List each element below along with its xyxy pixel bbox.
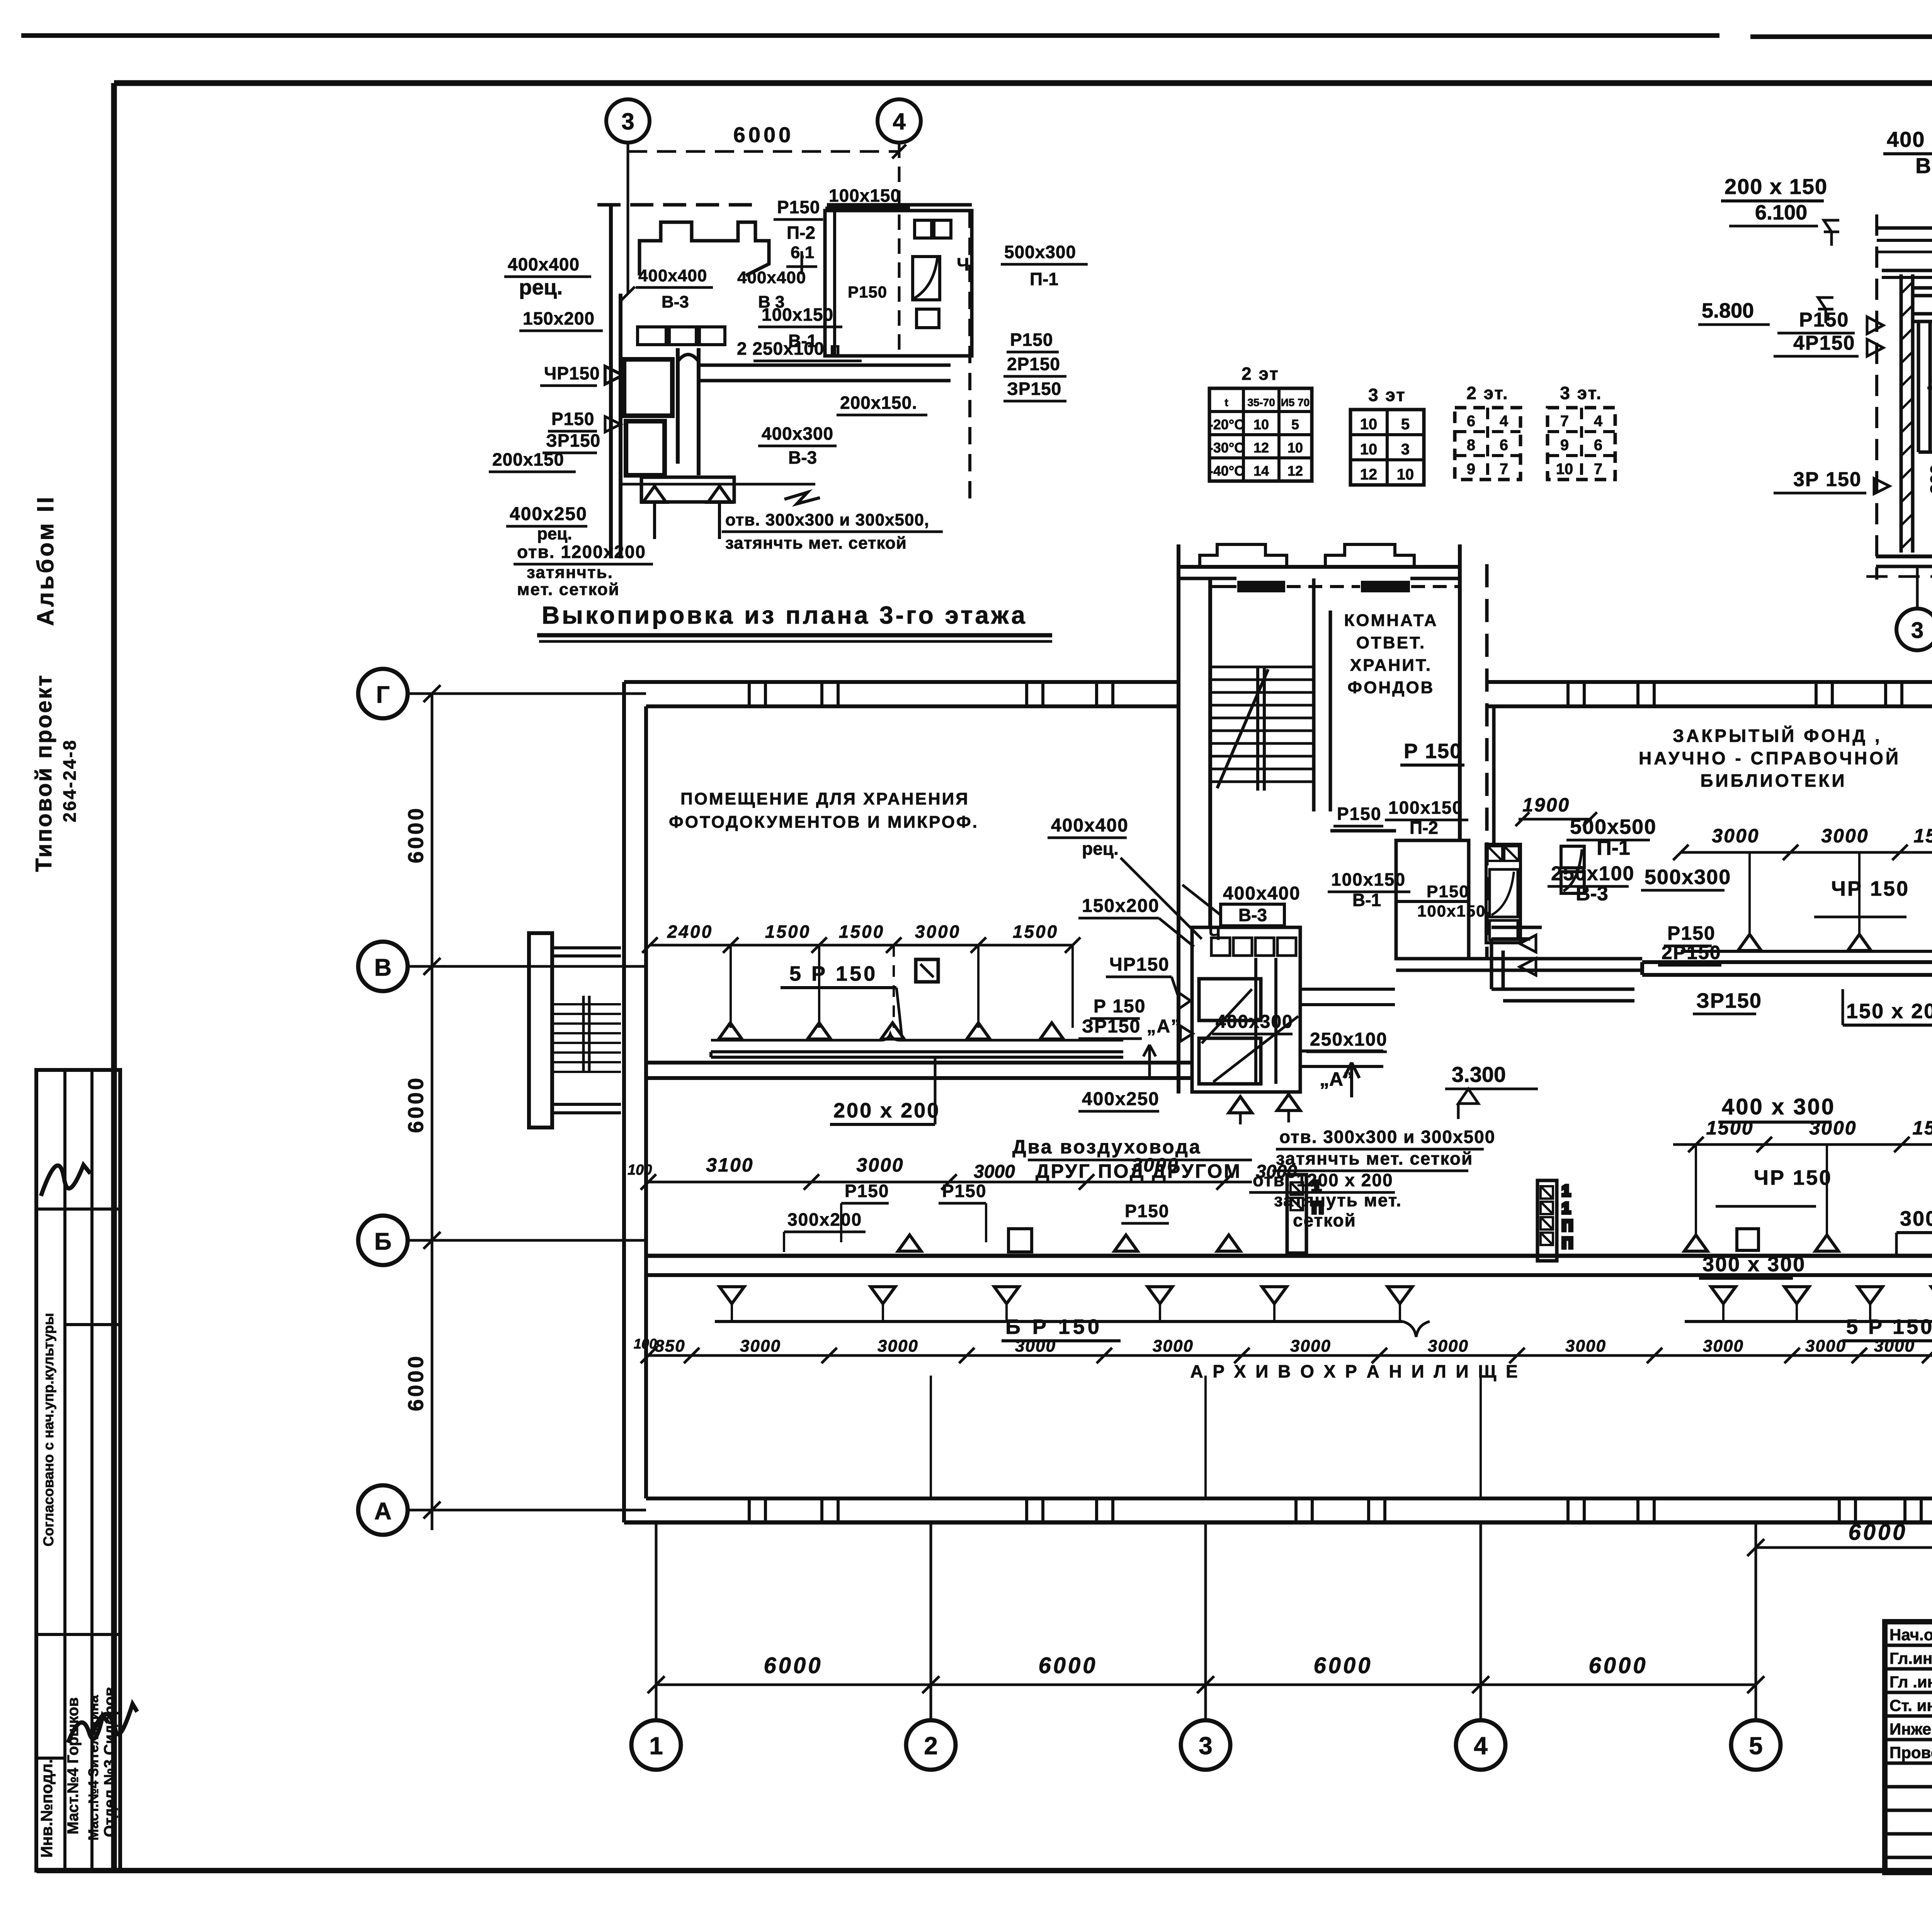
excerpt plan walls — [597, 205, 972, 558]
svg-text:3000: 3000 — [915, 922, 961, 942]
svg-text:200х150.: 200х150. — [840, 393, 917, 413]
svg-text:500х500: 500х500 — [1570, 815, 1656, 838]
section level marks — [1818, 220, 1932, 510]
svg-text:500х300: 500х300 — [1004, 242, 1076, 262]
right lower room labels — [1699, 1166, 1932, 1278]
svg-text:150 х 200: 150 х 200 — [1846, 1000, 1932, 1023]
outer top border line — [21, 36, 1932, 37]
section axis circle 3 — [1896, 609, 1932, 650]
svg-text:400х300: 400х300 — [1216, 1012, 1293, 1032]
svg-text:6: 6 — [1594, 437, 1602, 454]
svg-text:3 эт: 3 эт — [1368, 385, 1406, 405]
central cluster labels — [1048, 815, 1388, 1111]
svg-text:ЧР150: ЧР150 — [544, 363, 600, 383]
outside stair porch — [529, 933, 621, 1128]
svg-text:отв. 300х300 и 300х500,: отв. 300х300 и 300х500, — [725, 510, 929, 529]
svg-text:10: 10 — [1397, 466, 1414, 483]
svg-text:П: П — [1562, 1217, 1573, 1234]
room П-2 block — [1330, 706, 1642, 970]
svg-text:затянчть мет. сеткой: затянчть мет. сеткой — [725, 534, 907, 553]
left table signatures — [41, 1165, 137, 1743]
svg-text:3000: 3000 — [1565, 1337, 1606, 1355]
svg-text:10: 10 — [1556, 461, 1573, 478]
svg-text:Р150: Р150 — [848, 283, 887, 301]
svg-text:3000: 3000 — [878, 1337, 918, 1355]
title block role labels — [1889, 1626, 1932, 1762]
svg-text:Альбом II: Альбом II — [32, 495, 58, 626]
label 5Р150 — [781, 962, 902, 1037]
bottom dim line 6000s — [648, 1653, 1764, 1693]
svg-text:Р 150: Р 150 — [1404, 740, 1462, 763]
svg-text:6.100: 6.100 — [1755, 201, 1807, 224]
left inventory table — [36, 1070, 120, 1871]
svg-text:ЗР150: ЗР150 — [1696, 989, 1762, 1012]
duct labels below cluster — [974, 1136, 1297, 1182]
svg-text:-30°С: -30°С — [1209, 440, 1244, 456]
svg-text:3100: 3100 — [706, 1154, 753, 1176]
svg-text:1500: 1500 — [1912, 1117, 1932, 1139]
svg-text:Маст.№4 Горшков: Маст.№4 Горшков — [65, 1697, 82, 1835]
svg-text:мет. сеткой: мет. сеткой — [517, 580, 620, 599]
svg-text:300: 300 — [1927, 464, 1932, 494]
svg-text:Нач.отд. N2: Нач.отд. N2 — [1889, 1626, 1932, 1644]
svg-text:ЗР150: ЗР150 — [1007, 379, 1061, 399]
svg-text:3000: 3000 — [1131, 1154, 1179, 1176]
svg-text:сеткой: сеткой — [1293, 1210, 1356, 1230]
svg-text:рец.: рец. — [1082, 838, 1119, 859]
svg-text:4: 4 — [893, 109, 906, 134]
svg-text:1500: 1500 — [1013, 922, 1058, 942]
svg-text:ЧР150: ЧР150 — [1109, 954, 1170, 975]
svg-text:-20°С: -20°С — [1209, 417, 1244, 432]
vent table 2эт (big) — [1209, 364, 1312, 481]
interior wall below right room — [1642, 962, 1932, 975]
П-1 labels — [1515, 794, 1762, 1014]
svg-text:100х150: 100х150 — [829, 185, 901, 206]
svg-text:100х150: 100х150 — [1388, 798, 1463, 818]
svg-text:3000: 3000 — [1256, 1162, 1297, 1182]
svg-text:1: 1 — [649, 1732, 663, 1760]
svg-text:3000: 3000 — [1805, 1337, 1846, 1355]
svg-text:12: 12 — [1360, 466, 1378, 483]
svg-text:Р150: Р150 — [1010, 330, 1053, 350]
door block left — [1287, 1175, 1323, 1253]
tower room label — [1344, 611, 1438, 697]
section labels — [1698, 127, 1932, 494]
left room dim row — [642, 922, 1080, 1028]
svg-text:7: 7 — [1594, 461, 1602, 478]
section walls — [1866, 214, 1932, 607]
excerpt title — [537, 601, 1052, 641]
svg-text:5: 5 — [1291, 417, 1299, 432]
svg-text:6: 6 — [1467, 413, 1475, 430]
top exterior wall right room — [1488, 682, 1932, 706]
svg-text:ЧР 150: ЧР 150 — [1754, 1166, 1832, 1189]
svg-text:250х100: 250х100 — [1551, 862, 1634, 885]
corridor P150 labels — [784, 1181, 1169, 1252]
svg-text:300х200: 300х200 — [787, 1209, 862, 1230]
svg-text:Б Р 150: Б Р 150 — [1005, 1315, 1102, 1338]
svg-text:3: 3 — [1401, 441, 1410, 458]
svg-text:6000: 6000 — [764, 1653, 823, 1678]
svg-text:БИБЛИОТЕКИ: БИБЛИОТЕКИ — [1700, 770, 1847, 791]
svg-text:400х400: 400х400 — [638, 266, 707, 285]
svg-text:150х200: 150х200 — [1082, 896, 1160, 916]
svg-text:ОТВЕТ.: ОТВЕТ. — [1356, 633, 1426, 652]
svg-text:300 х 200: 300 х 200 — [1900, 1207, 1932, 1230]
svg-text:5 Р 150: 5 Р 150 — [789, 962, 878, 985]
svg-text:3000: 3000 — [856, 1154, 904, 1176]
vent table 2эт dashed — [1455, 383, 1520, 480]
right center duct elbow — [1492, 846, 1634, 1001]
left vertical dim 6000s — [403, 685, 440, 1530]
dim 6000 (excerpt) — [628, 122, 906, 158]
svg-text:А Р Х И В О Х Р А Н И Л И Щ Е: А Р Х И В О Х Р А Н И Л И Щ Е — [1190, 1361, 1520, 1381]
svg-text:400х400: 400х400 — [1223, 883, 1301, 904]
svg-text:3000: 3000 — [1809, 1117, 1857, 1139]
svg-text:Р 150: Р 150 — [1094, 996, 1146, 1017]
svg-text:400 х 300: 400 х 300 — [1887, 127, 1932, 151]
svg-text:А: А — [374, 1498, 392, 1525]
svg-text:НАУЧНО - СПРАВОЧНОЙ: НАУЧНО - СПРАВОЧНОЙ — [1639, 748, 1901, 768]
svg-text:400х400: 400х400 — [737, 268, 806, 287]
svg-text:200 х 150: 200 х 150 — [1725, 174, 1828, 199]
svg-text:1500: 1500 — [765, 922, 811, 942]
svg-text:7: 7 — [1560, 413, 1569, 430]
svg-text:500х300: 500х300 — [1645, 866, 1731, 889]
svg-text:3000: 3000 — [974, 1162, 1015, 1182]
svg-text:отв. 1200х200: отв. 1200х200 — [517, 542, 646, 562]
svg-text:Б: Б — [374, 1228, 392, 1255]
excerpt duct cluster — [621, 211, 970, 502]
svg-text:Гл.инж.отд.: Гл.инж.отд. — [1889, 1649, 1932, 1667]
svg-text:6000: 6000 — [403, 1354, 428, 1412]
left exterior wall — [624, 682, 646, 1522]
svg-text:Выкопировка из плана 3-го этаж: Выкопировка из плана 3-го этажа — [542, 601, 1027, 629]
svg-text:П-2: П-2 — [787, 223, 815, 243]
svg-text:Р150: Р150 — [1337, 804, 1381, 824]
svg-text:2 250х100 п: 2 250х100 п — [737, 338, 841, 359]
svg-text:П: П — [1312, 1199, 1323, 1217]
svg-text:Р150: Р150 — [942, 1181, 986, 1201]
svg-text:10: 10 — [1360, 416, 1378, 433]
svg-text:100: 100 — [628, 1162, 652, 1178]
svg-text:1500: 1500 — [1913, 825, 1932, 847]
small square symbol — [916, 959, 938, 982]
svg-text:12: 12 — [1253, 440, 1269, 456]
section mark A lower + 3.300 — [1320, 1062, 1538, 1119]
svg-text:6000: 6000 — [1588, 1653, 1648, 1678]
archive room label — [1190, 1361, 1520, 1381]
svg-text:4: 4 — [1594, 413, 1603, 430]
bottom exterior wall — [624, 1498, 1932, 1522]
svg-text:рец.: рец. — [537, 524, 572, 543]
svg-text:100х150: 100х150 — [1331, 869, 1406, 889]
svg-text:5.800: 5.800 — [1702, 299, 1754, 322]
svg-text:35-70: 35-70 — [1247, 396, 1275, 408]
left table vertical labels — [37, 1313, 118, 1858]
svg-text:2 эт: 2 эт — [1242, 364, 1279, 384]
svg-text:Р150: Р150 — [551, 409, 594, 429]
svg-text:затянчть мет. сеткой: затянчть мет. сеткой — [1276, 1148, 1473, 1168]
svg-text:3: 3 — [621, 109, 634, 134]
svg-text:Р150: Р150 — [1799, 309, 1849, 331]
svg-text:3000: 3000 — [1712, 825, 1759, 847]
right room ЧР150 — [1814, 877, 1910, 917]
svg-text:2: 2 — [924, 1732, 938, 1760]
svg-text:Ст. инжен.: Ст. инжен. — [1889, 1696, 1932, 1714]
svg-text:3 эт.: 3 эт. — [1560, 383, 1602, 403]
svg-text:ПОМЕЩЕНИЕ ДЛЯ ХРАНЕНИЯ: ПОМЕЩЕНИЕ ДЛЯ ХРАНЕНИЯ — [680, 789, 969, 808]
svg-text:ФОНДОВ: ФОНДОВ — [1348, 678, 1435, 697]
svg-text:200х150: 200х150 — [492, 449, 564, 469]
svg-text:6000: 6000 — [1038, 1653, 1097, 1678]
svg-text:ХРАНИТ.: ХРАНИТ. — [1350, 656, 1432, 675]
svg-text:П-1: П-1 — [1597, 836, 1630, 859]
right lower room diffusers — [1684, 1145, 1932, 1251]
svg-text:5: 5 — [1401, 416, 1410, 433]
corridor dim row left — [628, 1154, 1252, 1190]
title block frame — [1885, 1622, 1932, 1872]
svg-text:3000: 3000 — [1821, 825, 1869, 847]
center otv labels — [1249, 1127, 1495, 1230]
svg-text:Инженер: Инженер — [1889, 1720, 1932, 1738]
label 5Р150 bottom right — [1842, 1315, 1932, 1341]
svg-text:6: 6 — [1500, 437, 1508, 454]
svg-text:400х250: 400х250 — [1082, 1089, 1160, 1109]
svg-text:ЗАКРЫТЫЙ ФОНД ,: ЗАКРЫТЫЙ ФОНД , — [1673, 726, 1882, 746]
central vent shaft cluster — [1179, 846, 1395, 1094]
svg-text:3000: 3000 — [740, 1337, 781, 1355]
svg-text:В-3: В-3 — [662, 293, 689, 311]
svg-text:-40°С: -40°С — [1209, 463, 1244, 479]
svg-text:100: 100 — [634, 1336, 657, 1352]
svg-text:1500: 1500 — [839, 922, 884, 942]
svg-text:Ч: Ч — [1209, 925, 1221, 944]
svg-text:Г: Г — [376, 682, 389, 708]
svg-text:1: 1 — [1312, 1177, 1321, 1196]
svg-text:6000: 6000 — [733, 122, 794, 147]
svg-text:3Р 150: 3Р 150 — [1793, 468, 1862, 491]
svg-text:2400: 2400 — [667, 922, 713, 942]
label 150x200 right — [1843, 989, 1932, 1025]
svg-text:1500: 1500 — [1706, 1117, 1753, 1139]
main plan axis circles 1-5 — [631, 1522, 1781, 1770]
svg-text:4Р150: 4Р150 — [1793, 332, 1855, 354]
svg-text:10: 10 — [1253, 417, 1269, 432]
axis circle 4 (excerpt) — [878, 99, 921, 355]
label БР150 — [1002, 1315, 1121, 1341]
vent table 3эт — [1350, 385, 1424, 485]
svg-text:9: 9 — [1560, 437, 1569, 454]
svg-text:3: 3 — [1911, 618, 1923, 643]
svg-text:6000: 6000 — [1313, 1653, 1372, 1678]
svg-text:3.300: 3.300 — [1452, 1062, 1506, 1087]
svg-text:В-3: В-3 — [788, 447, 817, 468]
svg-text:3: 3 — [1199, 1732, 1213, 1760]
vent table 3эт dashed — [1548, 383, 1615, 480]
right lower room dim row — [1673, 1117, 1932, 1152]
svg-text:264-24-8: 264-24-8 — [60, 739, 80, 822]
svg-text:10: 10 — [1287, 440, 1303, 456]
left margin stamp text — [31, 495, 80, 872]
archive diffuser row — [715, 1287, 1932, 1337]
svg-text:КОМНАТА: КОМНАТА — [1344, 611, 1438, 630]
svg-text:850: 850 — [655, 1337, 685, 1355]
tower window dashes — [1211, 585, 1459, 588]
svg-text:5 Р 150: 5 Р 150 — [1846, 1315, 1932, 1338]
svg-text:6000: 6000 — [403, 1076, 428, 1133]
svg-text:100х150: 100х150 — [762, 304, 833, 325]
svg-text:250х100: 250х100 — [1310, 1029, 1388, 1050]
svg-text:ЗР150: ЗР150 — [546, 430, 600, 451]
svg-text:3000: 3000 — [1290, 1337, 1331, 1355]
svg-text:Р150: Р150 — [777, 197, 820, 217]
svg-text:В: В — [374, 954, 392, 981]
excerpt arrows and marks — [621, 287, 820, 539]
svg-text:В - 3: В - 3 — [1915, 153, 1932, 178]
axis stubs in archive room — [931, 1376, 1481, 1498]
svg-text:Маст.№4 Зителихина: Маст.№4 Зителихина — [85, 1695, 101, 1840]
left room label — [669, 789, 979, 832]
svg-text:4: 4 — [1474, 1732, 1488, 1760]
left room diffuser row — [711, 1023, 1123, 1040]
svg-text:В-1: В-1 — [1352, 890, 1381, 910]
svg-text:14: 14 — [1253, 463, 1269, 479]
duct 200x200 run — [711, 1052, 1123, 1124]
svg-text:И5 70: И5 70 — [1281, 396, 1310, 408]
svg-text:400х250: 400х250 — [510, 504, 587, 524]
door block right — [1537, 1180, 1573, 1261]
svg-text:3000: 3000 — [1428, 1337, 1469, 1355]
svg-text:Типовой проект: Типовой проект — [31, 673, 56, 872]
svg-text:t: t — [1225, 396, 1228, 408]
svg-text:П-2: П-2 — [1410, 818, 1438, 838]
svg-text:400 х 300: 400 х 300 — [1722, 1094, 1835, 1119]
svg-text:ФОТОДОКУМЕНТОВ И МИКРОФ.: ФОТОДОКУМЕНТОВ И МИКРОФ. — [669, 813, 979, 832]
svg-text:Р150: Р150 — [1667, 922, 1716, 944]
label 400x300 right — [1718, 1094, 1835, 1122]
svg-text:П-1: П-1 — [1030, 269, 1058, 289]
svg-text:5: 5 — [1749, 1732, 1763, 1760]
svg-text:9: 9 — [1467, 461, 1475, 478]
svg-text:7: 7 — [1500, 461, 1508, 478]
axis circle 3 (excerpt) — [606, 99, 650, 294]
svg-text:100х150: 100х150 — [1417, 902, 1486, 920]
svg-text:затянчть.: затянчть. — [527, 563, 613, 582]
svg-text:П: П — [1562, 1235, 1573, 1252]
svg-text:150х200: 150х200 — [523, 308, 595, 328]
svg-text:3000: 3000 — [1153, 1337, 1194, 1355]
right room dim row — [1673, 825, 1932, 860]
svg-text:2 эт.: 2 эт. — [1466, 383, 1509, 403]
svg-text:4: 4 — [1500, 413, 1509, 430]
svg-text:400х300: 400х300 — [762, 423, 833, 444]
svg-text:12: 12 — [1287, 463, 1303, 479]
svg-text:Инв.№подл.: Инв.№подл. — [37, 1759, 56, 1857]
svg-text:3000: 3000 — [1703, 1337, 1744, 1355]
svg-text:400х400: 400х400 — [508, 254, 580, 274]
svg-text:8: 8 — [1467, 437, 1475, 454]
right room diffusers — [1681, 852, 1932, 951]
cluster B-3 label box — [1182, 883, 1301, 944]
archive dim row — [634, 1336, 1932, 1363]
corridor diffusers — [898, 1229, 1240, 1252]
svg-text:Отдел №3 Сидоров: Отдел №3 Сидоров — [101, 1687, 118, 1837]
axis 6 dim and circle — [1747, 1520, 1932, 1600]
svg-text:300 х 300: 300 х 300 — [1702, 1253, 1806, 1276]
svg-text:200 х 200: 200 х 200 — [833, 1099, 940, 1122]
svg-text:Согласовано с нач.упр.культуры: Согласовано с нач.упр.культуры — [41, 1313, 56, 1547]
svg-text:ЗР150 „А”: ЗР150 „А” — [1082, 1016, 1181, 1037]
svg-text:Р150: Р150 — [1427, 882, 1469, 901]
right room label — [1639, 726, 1901, 791]
tower black window bars — [1237, 581, 1410, 592]
svg-text:В-3: В-3 — [1238, 905, 1267, 925]
svg-text:6000: 6000 — [403, 806, 428, 864]
svg-text:Гл .инж. пр.: Гл .инж. пр. — [1889, 1673, 1932, 1691]
corridor wall (axis Б) — [646, 1256, 1932, 1275]
stair tower — [1179, 544, 1487, 958]
svg-text:1: 1 — [1562, 1200, 1570, 1217]
svg-text:Ч: Ч — [957, 254, 969, 274]
svg-text:ЧР 150: ЧР 150 — [1831, 877, 1910, 900]
interior wall below left room — [646, 1063, 1192, 1078]
excerpt labels left — [489, 254, 653, 599]
horizontal axis circles Г В Б А — [358, 669, 646, 1535]
svg-text:Р150: Р150 — [1125, 1201, 1169, 1221]
stairwell steps — [1210, 578, 1330, 811]
svg-text:2Р150: 2Р150 — [1007, 354, 1060, 374]
П-2 labels — [1328, 740, 1486, 920]
svg-text:1: 1 — [1562, 1182, 1570, 1199]
top exterior wall left room — [624, 682, 1179, 706]
svg-text:Проверил: Проверил — [1889, 1743, 1932, 1762]
svg-text:10: 10 — [1360, 441, 1378, 458]
svg-text:отв. 300х300 и 300х500: отв. 300х300 и 300х500 — [1279, 1127, 1495, 1147]
svg-text:рец.: рец. — [519, 275, 563, 299]
svg-text:Р150: Р150 — [845, 1181, 889, 1201]
svg-text:400х400: 400х400 — [1051, 815, 1129, 836]
cluster bottom arrows — [1229, 1094, 1300, 1124]
excerpt labels middle — [636, 185, 1088, 553]
